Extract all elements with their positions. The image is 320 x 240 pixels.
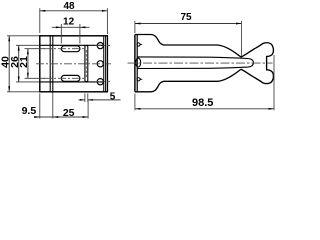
dim 12 line with outside tails	[52, 26, 90, 28]
plate hole bottom arrow	[141, 79, 143, 81]
dim 75 line	[135, 23, 242, 25]
svg-text:12: 12	[63, 17, 75, 28]
right column vertical x=103.7	[103, 36, 105, 92]
dim 98.5 extension lines	[134, 94, 136, 111]
plate right edge	[136, 35, 138, 92]
hole middle	[97, 61, 103, 67]
dim 48 arrows	[40, 10, 46, 12]
slot lower	[61, 75, 80, 81]
slot upper	[61, 46, 80, 52]
inner horizontal edge y=45.3	[40, 44, 104, 46]
dim 98.5 line	[135, 108, 274, 110]
dim 75 arrows	[135, 23, 141, 25]
right column vertical x=105.4	[104, 36, 106, 92]
inner horizontal edge y=81.9	[40, 81, 104, 83]
dim 9.5 extension lines	[39, 94, 41, 119]
plate center boss ellipse	[136, 58, 141, 67]
inner vertical edge x=50.2	[49, 36, 51, 92]
svg-text:9.5: 9.5	[22, 105, 37, 117]
centerline hole bottom	[95, 81, 110, 83]
dim 9.5 arrows	[34, 116, 40, 118]
dim 26 arrows	[18, 45, 20, 51]
part outline front view	[40, 36, 108, 92]
dim 40 arrows	[8, 36, 10, 42]
dim 98.5 arrows	[135, 108, 141, 110]
hole bottom	[97, 79, 103, 85]
inner vertical edge x=52.8	[52, 36, 54, 92]
dim 21 arrows	[27, 49, 29, 55]
dim 12 arrows (outside pointing in)	[56, 26, 62, 28]
dim 75 extension lines	[134, 21, 136, 33]
dim 5 extension lines	[84, 93, 86, 102]
centerline hole top	[95, 45, 110, 47]
dim 25 arrow	[83, 116, 89, 118]
centerline side view	[128, 62, 273, 64]
rib with rounded caps	[85, 45, 88, 81]
dim 12 extension lines	[60, 24, 62, 44]
centerline main horizontal front view	[36, 63, 111, 65]
dim 26 line	[18, 45, 20, 82]
svg-text:75: 75	[180, 12, 192, 23]
hole top	[97, 43, 103, 49]
svg-text:25: 25	[63, 107, 75, 119]
dim 48 line	[40, 10, 108, 12]
centerline slot lower	[44, 77, 86, 79]
plate left edge	[134, 35, 136, 92]
centerline slot upper	[44, 48, 86, 50]
dim 21 line	[27, 49, 29, 79]
rib hidden centerline	[85, 50, 87, 77]
svg-text:48: 48	[63, 1, 75, 12]
dim 21 extension lines	[25, 48, 46, 50]
plate hole top circle	[137, 43, 140, 46]
dim 26 extension lines	[16, 44, 39, 46]
dim 40 line	[8, 36, 10, 92]
dim 5 arrows (outside pointing in)	[80, 99, 85, 101]
dim 5 line with tails	[79, 99, 85, 101]
plate hole bottom circle	[137, 78, 140, 81]
dim 9.5/25 shared line	[34, 116, 88, 118]
outer profile top	[135, 35, 274, 92]
web top line	[137, 57, 253, 69]
svg-text:5: 5	[110, 92, 116, 103]
svg-text:98.5: 98.5	[192, 97, 213, 109]
plate hole top arrow	[141, 44, 143, 46]
dim 48 extension lines	[39, 8, 41, 33]
dim 25 extension line	[87, 101, 89, 119]
svg-text:21: 21	[18, 56, 30, 68]
dim 40 extension lines	[7, 35, 39, 37]
